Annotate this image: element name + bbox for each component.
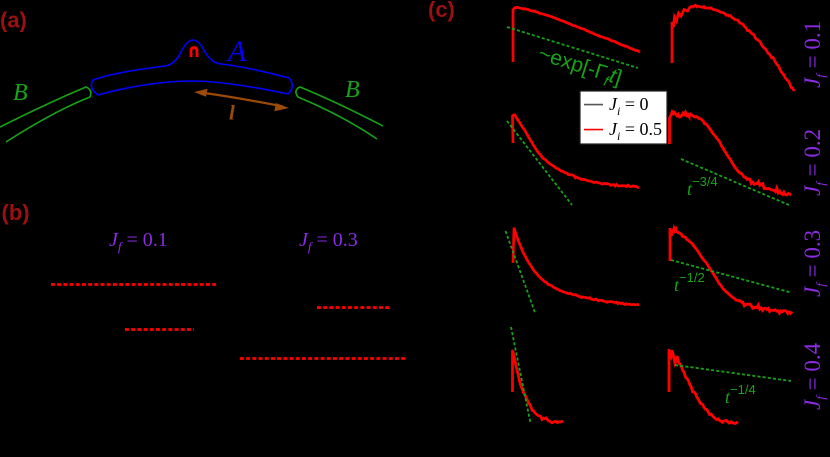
- chain segment B left (green capsule): [0, 87, 91, 142]
- svg-text:A: A: [226, 35, 247, 68]
- svg-text:B: B: [13, 80, 28, 106]
- magnon symbol (red): [191, 48, 197, 58]
- energy level 3 (b right short dashed red): [317, 306, 389, 309]
- c row3 right: green dashed t^-1/2 guide: [671, 260, 791, 293]
- svg-text:l: l: [229, 101, 235, 125]
- energy level 2 (b left short dashed red): [125, 328, 194, 331]
- chain segment B right (green capsule): [296, 87, 383, 139]
- arrowhead left: [194, 89, 208, 97]
- svg-text:Jf = 0.3: Jf = 0.3: [299, 229, 358, 254]
- svg-text:Jf = 0.1: Jf = 0.1: [800, 21, 828, 88]
- legend line Ji=0.5 (red): [584, 129, 603, 131]
- svg-text:B: B: [345, 77, 360, 103]
- c row4 right: green dashed t^-1/4 guide: [675, 365, 791, 381]
- c row3 left: red curve: [513, 228, 639, 305]
- c row3 left: green dashed guide: [506, 231, 536, 314]
- c row3 right: red curve: [670, 228, 792, 314]
- c row1 right: red curve: [672, 5, 794, 91]
- c row2 right: green dashed t^-3/4 guide: [681, 159, 789, 205]
- c row4 right: red curve: [669, 349, 738, 424]
- svg-text:Jf = 0.2: Jf = 0.2: [800, 129, 828, 196]
- svg-text:Jf = 0.4: Jf = 0.4: [800, 342, 828, 410]
- c row1 left: red curve Ji=0.5: [513, 7, 640, 62]
- svg-text:Jf = 0.3: Jf = 0.3: [800, 230, 828, 297]
- subsystem A outline (blue blob with magnon bump): [91, 40, 292, 95]
- c row4 left: red curve: [513, 350, 564, 423]
- arrow shaft (length l, double-headed, orange): [201, 93, 283, 107]
- c row4 left: green dashed guide: [511, 327, 531, 423]
- arrowhead right: [274, 103, 289, 111]
- c row2 left: red curve: [513, 115, 640, 188]
- c row2 right: red curve: [670, 112, 792, 195]
- legend line Ji=0 (black): [584, 104, 603, 106]
- svg-text:Jf = 0.1: Jf = 0.1: [109, 229, 168, 254]
- c row2 left: green dashed guide: [507, 121, 572, 205]
- energy level 1 (b left long dashed red): [51, 283, 217, 286]
- c row1 left: green dashed exp guide: [507, 27, 638, 68]
- svg-text:(c): (c): [428, 0, 455, 22]
- svg-text:(b): (b): [2, 200, 30, 225]
- svg-text:(a): (a): [0, 8, 27, 33]
- legend box: [580, 91, 667, 144]
- energy level 4 (b right long dashed red): [240, 357, 406, 360]
